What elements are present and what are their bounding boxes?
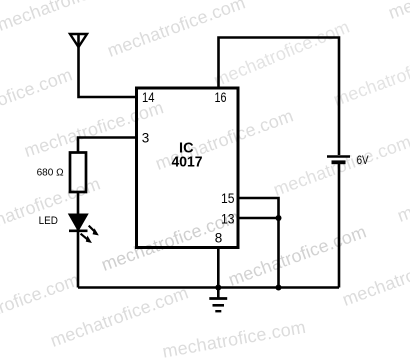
junction node bus/ground [215, 285, 221, 291]
antenna ANT1 [70, 34, 87, 47]
wire antenna to pin 14 [79, 46, 138, 97]
svg-text:4017: 4017 [172, 155, 203, 171]
IC U1 4017 [137, 88, 239, 248]
wire battery negative to bottom bus [338, 164, 341, 288]
wire pin 16 to battery positive [219, 38, 340, 156]
wire pin 8 to ground [217, 248, 220, 288]
svg-text:14: 14 [142, 90, 155, 105]
wire pin 15 [238, 198, 279, 288]
wire pin 13 [238, 217, 279, 220]
svg-text:15: 15 [221, 191, 235, 206]
svg-text:3: 3 [142, 131, 150, 146]
svg-text:8: 8 [215, 230, 223, 245]
resistor 680 ohm [70, 153, 86, 193]
battery B1 6V [327, 157, 350, 163]
wire pin 3 to resistor [78, 138, 137, 154]
junction node bus/pin15 [276, 285, 282, 291]
ground [209, 288, 227, 312]
svg-text:6V: 6V [357, 153, 369, 167]
svg-text:13: 13 [221, 212, 235, 227]
junction node pin13/15 [276, 215, 282, 221]
wire bottom bus [78, 286, 339, 289]
svg-text:680 Ω: 680 Ω [37, 168, 64, 179]
wire LED to bottom bus [77, 229, 80, 288]
svg-text:LED: LED [39, 215, 58, 227]
wire resistor to LED [77, 192, 80, 215]
LED D1 [69, 215, 98, 243]
svg-text:16: 16 [215, 90, 227, 105]
